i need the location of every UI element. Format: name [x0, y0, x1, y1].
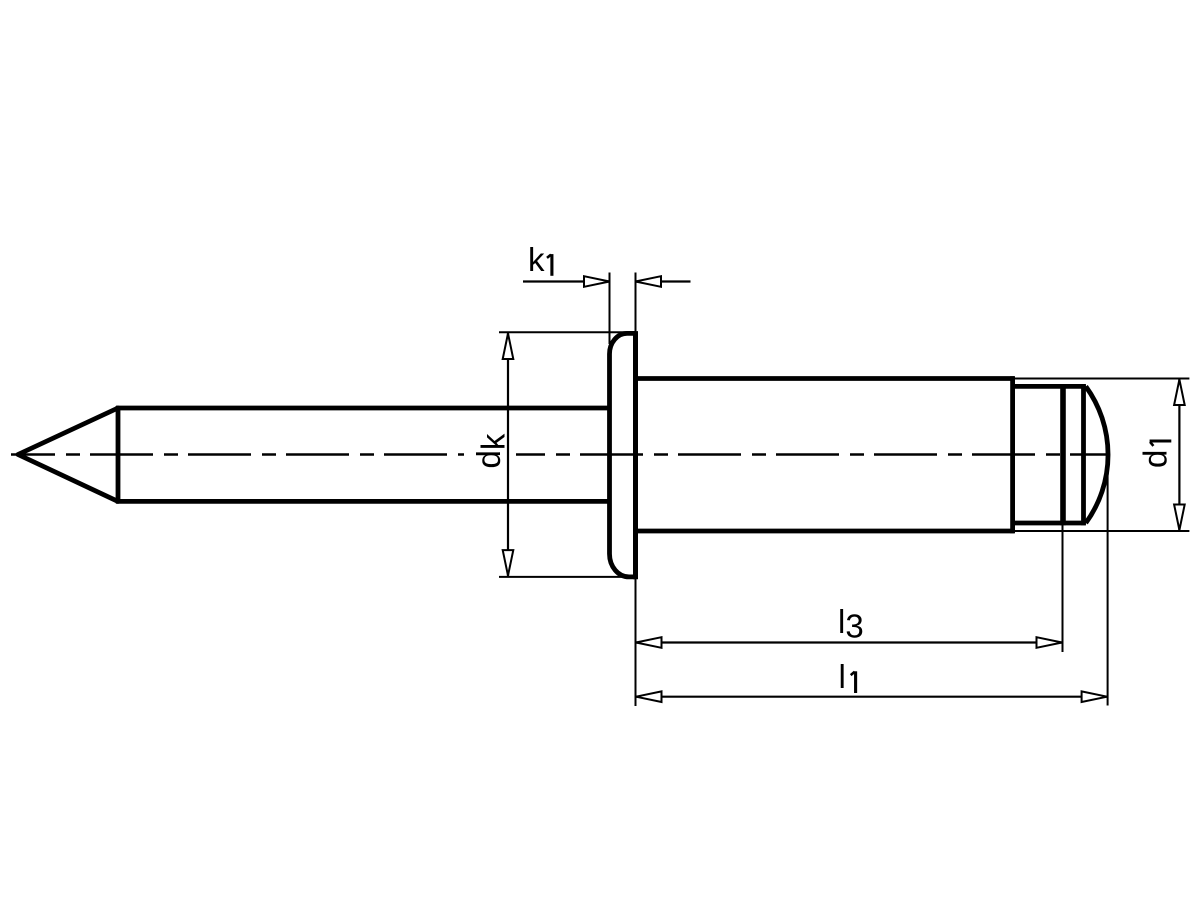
rivet head flange — [610, 331, 636, 579]
dimension k1: extension line right (shared with l3/l1) — [635, 273, 637, 707]
svg-text:k: k — [528, 241, 545, 278]
dimension l1: dimension line with arrows — [636, 691, 1108, 702]
dimension l3: extension line right — [1062, 524, 1064, 652]
mandrel head dome — [1086, 386, 1108, 523]
dimension d1: dimension line with arrows — [1174, 379, 1185, 531]
mandrel head cylinder — [1013, 384, 1086, 525]
dimension l1: extension line right — [1107, 455, 1109, 706]
centre line (rivet axis) — [11, 453, 1108, 456]
dimension k1: extension line left — [609, 273, 611, 345]
dimension dk: dimension line with arrows — [503, 333, 514, 576]
mandrel point (cone) — [18, 406, 118, 503]
dimension dk: extension lines — [499, 332, 630, 577]
svg-text:d: d — [1136, 450, 1173, 468]
rivet sleeve body — [636, 376, 1015, 533]
svg-text:dk: dk — [470, 433, 512, 468]
dimension k1: dimension line right with arrow — [636, 276, 691, 287]
svg-text:l: l — [839, 658, 846, 695]
svg-text:l3: l3 — [838, 603, 864, 644]
dimension k1: dimension line left with arrow — [523, 276, 610, 287]
dimension d1: extension lines — [1015, 379, 1190, 532]
mandrel shaft — [116, 408, 610, 501]
dimension l3: dimension line with arrows — [636, 637, 1063, 648]
